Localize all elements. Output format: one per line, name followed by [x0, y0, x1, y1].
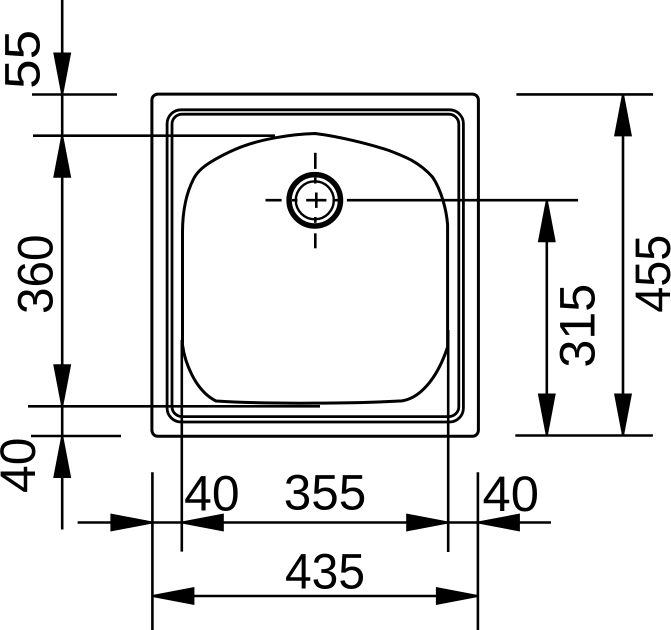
row2 internal arrow right (435 right): [436, 587, 478, 605]
drain centerline bottom dash: [314, 233, 317, 248]
svg-text:455: 455: [625, 235, 671, 313]
row1 internal arrow right at bowl right: [406, 514, 448, 532]
row2 internal arrow left (435 left): [152, 587, 194, 605]
arrow up at drain centerline (315 top): [538, 200, 556, 242]
arrow up at bowl top: [53, 136, 71, 178]
drain centerline left dash: [266, 199, 282, 202]
sink rim inner edge outer line: [167, 110, 463, 422]
bottom extension line outer left: [151, 472, 154, 630]
svg-text:55: 55: [0, 30, 50, 89]
extension tick bowl top: [33, 134, 275, 137]
dimension line 315: [545, 200, 548, 435]
svg-text:315: 315: [550, 284, 606, 368]
drain center cross horizontal: [306, 199, 326, 202]
right extension tick top: [516, 93, 653, 96]
svg-text:435: 435: [285, 543, 365, 599]
arrow down at bottom edge (455 bottom): [614, 394, 632, 436]
drain centerline bottom gap tick: [314, 217, 317, 223]
arrow up at top edge (455 top): [614, 94, 632, 136]
left dimension chain line: [61, 0, 64, 530]
arrow down at bottom edge (315 bottom): [538, 394, 556, 436]
extension tick bowl bottom: [28, 405, 320, 408]
drain centerline top dash: [314, 153, 317, 169]
drain inner circle: [296, 181, 334, 219]
dimension row1 line: [78, 521, 551, 524]
svg-text:40: 40: [483, 466, 540, 522]
bowl outline: [183, 134, 448, 404]
drain centerline left gap tick: [292, 199, 298, 202]
svg-text:355: 355: [284, 465, 367, 521]
svg-text:40: 40: [184, 466, 240, 522]
drain outer ring: [289, 175, 340, 226]
svg-text:360: 360: [7, 234, 63, 314]
right extension tick bottom: [515, 434, 653, 437]
svg-text:40: 40: [0, 438, 46, 494]
drain center cross vertical: [315, 193, 318, 208]
bottom extension line outer right: [477, 472, 480, 630]
sink rim inner edge inner line: [172, 114, 459, 416]
arrow down at top edge: [53, 53, 71, 95]
drain centerline extension to 315 dimension: [347, 199, 578, 202]
extension tick bottom edge: [31, 435, 121, 438]
row1 internal arrow left at bowl left: [182, 514, 224, 532]
row1 external arrow right at outer left: [110, 514, 152, 532]
dimension row2 line 435: [152, 595, 478, 598]
sink outer rim rectangle: [152, 94, 479, 436]
bottom extension line bowl right: [447, 330, 450, 552]
dimension line 455: [622, 94, 625, 435]
extension tick top edge: [32, 93, 117, 96]
bottom extension line bowl left: [181, 340, 184, 552]
arrow up at bottom edge: [53, 436, 71, 478]
row1 external arrow left at outer right: [478, 514, 520, 532]
drain centerline right gap tick: [333, 199, 339, 202]
drain centerline top gap tick: [314, 178, 317, 184]
arrow down at bowl bottom: [53, 364, 71, 406]
